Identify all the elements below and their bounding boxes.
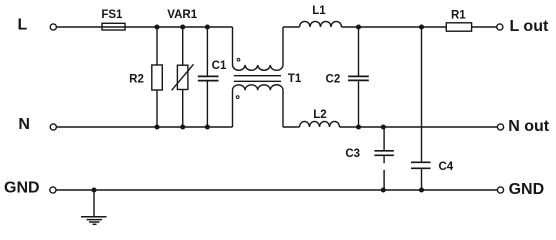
wire N input to transformer <box>57 126 233 128</box>
wire transformer to L2 <box>283 126 300 128</box>
node junction dot GND/earth <box>91 187 96 192</box>
wire R1 to L out <box>472 26 497 28</box>
svg-text:GND: GND <box>509 181 545 198</box>
svg-text:L1: L1 <box>312 5 326 17</box>
wire L1 to R1 <box>342 26 447 28</box>
node junction dot N/VAR1 <box>180 124 185 129</box>
ground earth symbol <box>81 190 107 224</box>
terminal circle L out <box>497 24 503 30</box>
wire L2 to N out <box>340 126 498 128</box>
terminal circle N input <box>50 124 56 130</box>
wire GND rail <box>56 189 497 191</box>
svg-text:L2: L2 <box>313 109 326 121</box>
node junction dot L/VAR1 <box>180 24 185 29</box>
wire fuse to transformer <box>125 26 233 28</box>
svg-text:C2: C2 <box>326 73 341 85</box>
svg-text:GND: GND <box>4 180 40 197</box>
svg-text:N out: N out <box>508 118 550 135</box>
svg-text:VAR1: VAR1 <box>167 9 197 21</box>
wire transformer to L1 <box>283 26 300 28</box>
resistor R1 <box>446 10 471 32</box>
svg-text:L out: L out <box>510 18 549 35</box>
fuse FS1 <box>101 9 125 30</box>
svg-text:R2: R2 <box>129 74 144 86</box>
terminal circle GND input <box>50 187 56 193</box>
inductor L1 <box>300 5 342 27</box>
resistor R2 <box>129 27 162 127</box>
svg-text:C1: C1 <box>212 60 227 72</box>
wire L input to fuse <box>57 26 102 28</box>
svg-text:N: N <box>18 116 30 133</box>
capacitor C1 <box>198 27 227 127</box>
terminal circle L input <box>50 24 56 30</box>
node junction dot L/R2 <box>154 24 159 29</box>
capacitor C2 <box>326 27 369 127</box>
svg-text:T1: T1 <box>288 73 302 85</box>
node junction dot L/C4 <box>419 24 424 29</box>
node junction dot GND/C3 <box>381 187 386 192</box>
terminal circle N out <box>497 124 503 130</box>
transformer T1 secondary winding <box>233 85 284 127</box>
node junction dot L/C1 <box>205 24 210 29</box>
node junction dot N/C3 <box>381 124 386 129</box>
node junction dot L/C2 <box>356 24 361 29</box>
node junction dot N/R2 <box>154 124 159 129</box>
node junction dot N/C2 <box>356 124 361 129</box>
terminal circle GND out <box>497 187 503 193</box>
polarity dot primary <box>237 58 240 61</box>
inductor L2 <box>300 109 340 127</box>
svg-text:R1: R1 <box>451 10 466 22</box>
polarity dot secondary <box>236 96 239 99</box>
capacitor C4 <box>411 27 454 190</box>
transformer T1 core <box>234 76 281 82</box>
node junction dot N/C1 <box>205 124 210 129</box>
svg-text:C3: C3 <box>345 148 360 160</box>
capacitor C3 <box>345 127 394 190</box>
varistor VAR1 <box>167 9 197 127</box>
transformer U T1 primary winding <box>233 27 284 70</box>
svg-text:C4: C4 <box>438 161 453 173</box>
svg-text:L: L <box>18 17 28 34</box>
svg-text:FS1: FS1 <box>101 9 123 21</box>
node junction dot GND/C4 <box>419 187 424 192</box>
